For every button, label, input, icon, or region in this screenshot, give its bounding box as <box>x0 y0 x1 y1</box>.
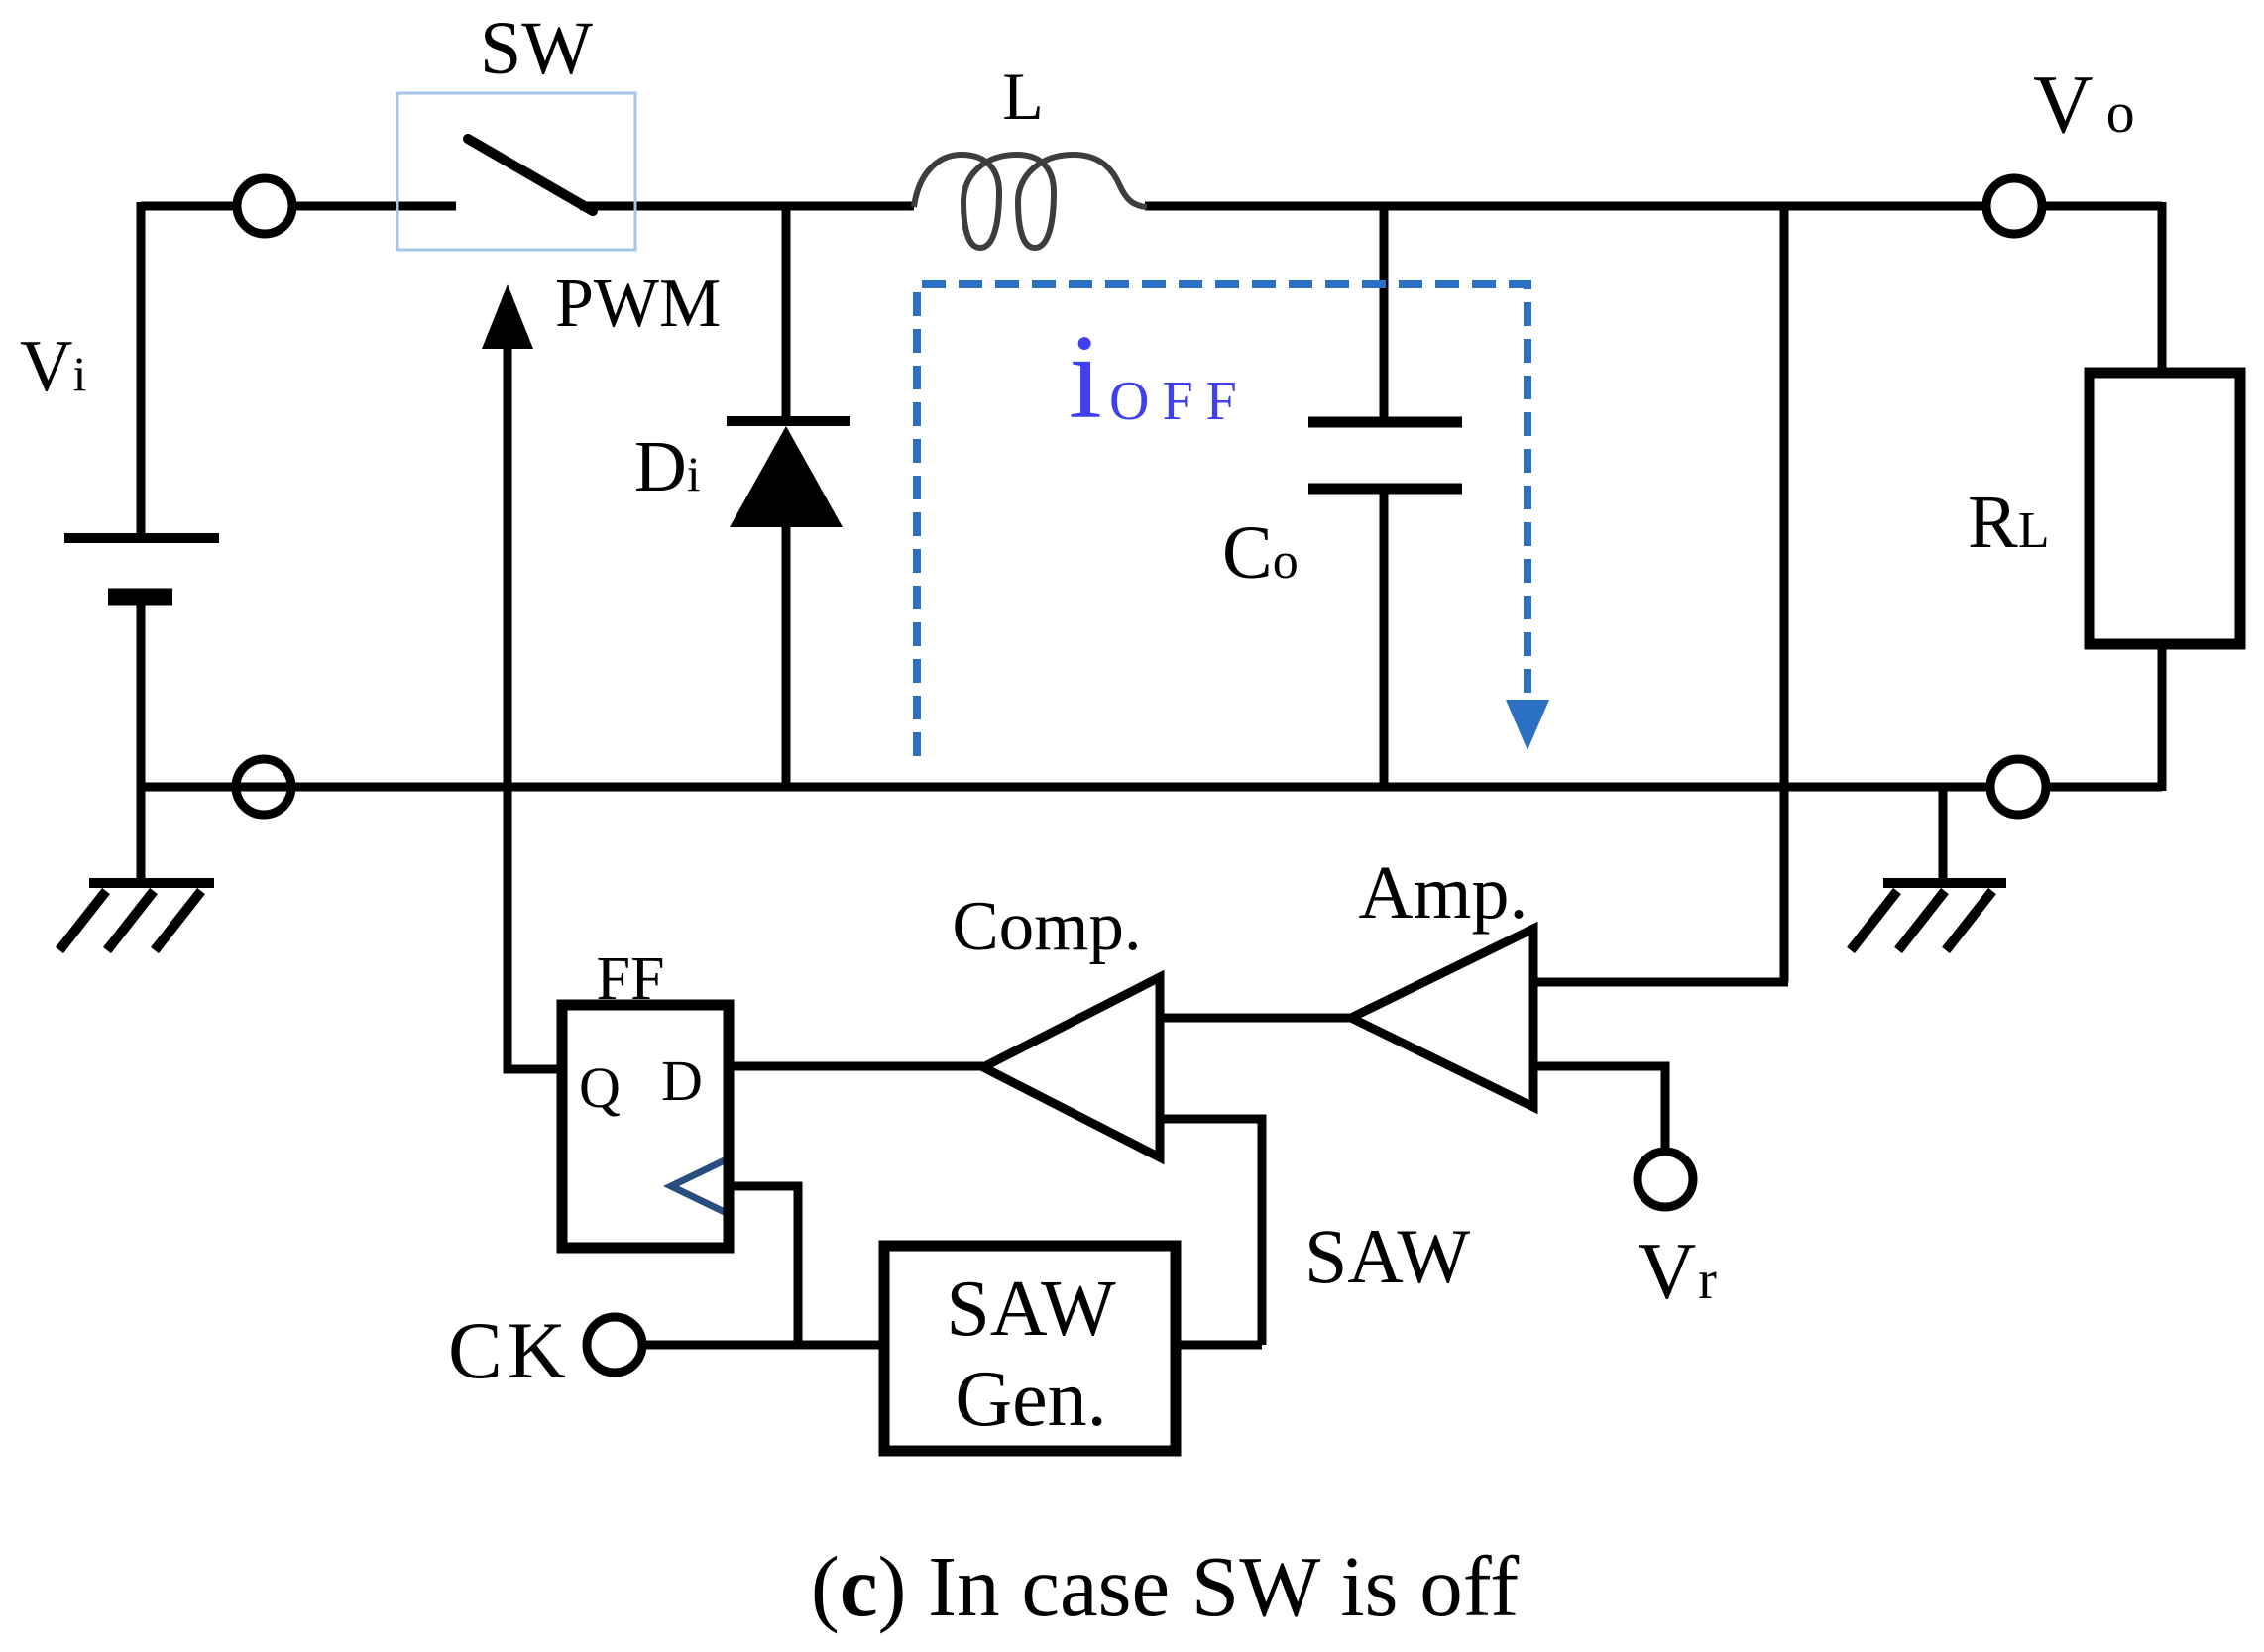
svg-text:i: i <box>1069 310 1102 444</box>
svg-text:FF: FF <box>597 945 665 1013</box>
terminal: output minus <box>1990 759 2046 815</box>
resistor RL <box>2090 373 2240 644</box>
wire: capacitor branch <box>1380 206 1389 787</box>
terminal: input minus <box>236 759 291 815</box>
svg-text:L: L <box>1002 58 1044 134</box>
terminal Vr <box>1638 1152 1693 1207</box>
svg-text:Q: Q <box>579 1055 621 1120</box>
block SAW Gen <box>884 1246 1176 1451</box>
switch SW bounding box <box>397 93 635 250</box>
wire: SAW Gen output <box>1176 1341 1262 1350</box>
switch SW blade <box>468 139 593 211</box>
diode Di <box>727 421 850 527</box>
svg-text:Gen.: Gen. <box>955 1356 1106 1443</box>
label Vr <box>1638 1226 1717 1316</box>
svg-text:D: D <box>661 1048 703 1113</box>
caption <box>811 1538 1519 1634</box>
label Vo <box>2033 58 2135 151</box>
current loop iOFF (dashed) <box>917 284 1549 756</box>
op-amp Amp (error amplifier) <box>1351 929 1533 1107</box>
label Comp. <box>952 888 1141 965</box>
terminal: input plus <box>237 178 292 234</box>
pin label Q <box>579 1055 621 1120</box>
label L <box>1002 58 1044 134</box>
svg-text:(c) In case SW is off: (c) In case SW is off <box>811 1538 1519 1634</box>
wire: CK to SAW Gen <box>642 1341 884 1350</box>
PWM control arrow (Q output wire) <box>482 284 562 1069</box>
svg-text:SAW: SAW <box>1304 1213 1470 1299</box>
label SAW Gen <box>946 1266 1116 1443</box>
wire: bottom rail <box>141 783 2162 792</box>
wire: Comp output to FF D input <box>729 1062 983 1071</box>
terminal CK <box>587 1317 642 1373</box>
capacitor Co <box>1308 422 1462 489</box>
label RL <box>1968 481 2049 564</box>
label Co <box>1222 511 1299 595</box>
label Vi <box>20 326 86 407</box>
label SW <box>480 7 593 90</box>
wire: top rail Vi+ to switch <box>141 202 456 211</box>
label CK <box>448 1305 571 1395</box>
terminal Vo <box>1986 178 2042 234</box>
label Di <box>634 426 701 506</box>
ground (input side) <box>59 883 214 950</box>
wire: output right rail <box>2158 202 2167 791</box>
label iOFF <box>1069 310 1250 444</box>
label SAW (signal) <box>1304 1213 1470 1299</box>
battery Vi <box>64 538 219 597</box>
wire: feedback tap (output sense) <box>1533 206 1788 982</box>
svg-text:PWM: PWM <box>555 266 721 342</box>
svg-text:SW: SW <box>480 7 593 90</box>
inductor L <box>914 155 1147 248</box>
wire: clock branch to FF <box>729 1186 798 1345</box>
FF clock edge triangle <box>671 1159 727 1213</box>
wire: left rail (Vi branch) <box>137 202 146 885</box>
label FF <box>597 945 665 1013</box>
svg-text:SAW: SAW <box>946 1266 1116 1353</box>
flip-flop FF <box>562 1005 729 1248</box>
svg-text:Comp.: Comp. <box>952 888 1141 965</box>
wire: Vr input <box>1533 1066 1665 1152</box>
wire: Amp output to Comp <box>1160 1014 1351 1023</box>
wire: diode branch <box>782 202 791 787</box>
svg-text:Amp.: Amp. <box>1359 851 1528 935</box>
ground (output side) <box>1851 787 2006 950</box>
svg-text:OFF: OFF <box>1109 371 1250 432</box>
label PWM <box>555 266 721 342</box>
wire: SAW to Comp lower input <box>1160 1119 1262 1345</box>
pin label D <box>661 1048 703 1113</box>
comparator Comp <box>983 977 1160 1157</box>
wire: top rail switch to inductor <box>580 202 914 211</box>
svg-text:CK: CK <box>448 1305 571 1395</box>
label Amp. <box>1359 851 1528 935</box>
wire: top rail inductor to Vo corner <box>1145 202 2162 211</box>
